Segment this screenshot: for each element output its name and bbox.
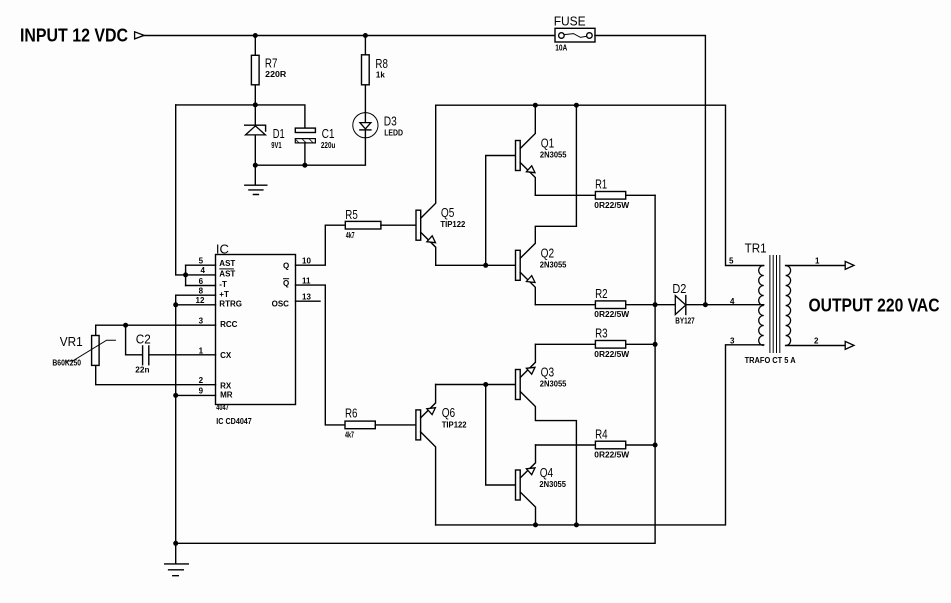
ground (upper, below D1): [245, 165, 267, 194]
svg-text:-T: -T: [219, 280, 227, 289]
transistor Q3 2N3055: [516, 344, 577, 525]
junction input-R8: [363, 33, 368, 38]
junction C1-gnd rail: [302, 163, 307, 168]
transistor Q5 TIP122: [416, 105, 466, 265]
svg-text:CX: CX: [220, 351, 232, 360]
svg-text:Q: Q: [283, 279, 289, 288]
svg-text:1: 1: [815, 256, 820, 265]
svg-text:Q6: Q6: [442, 405, 456, 420]
svg-text:TIP122: TIP122: [440, 220, 465, 229]
node INPUT 12 VDC label: [20, 26, 128, 46]
resistor R1: [535, 177, 655, 210]
resistor R6: [345, 406, 416, 440]
junction Q2 collector-rail: [574, 103, 579, 108]
svg-text:VR1: VR1: [60, 334, 83, 349]
svg-text:+T: +T: [219, 290, 229, 299]
svg-text:Q2: Q2: [541, 245, 555, 260]
svg-text:Q: Q: [283, 261, 289, 270]
svg-text:2N3055: 2N3055: [540, 150, 567, 159]
LED D3: [353, 113, 403, 138]
wire fuse to transformer center-tap drop: [595, 36, 705, 305]
svg-text:1: 1: [199, 346, 204, 355]
svg-text:Q3: Q3: [541, 364, 555, 379]
wire Q1 base riser: [486, 156, 516, 266]
wire secondary pin 2 out: [786, 345, 846, 347]
output port arrow 2: [845, 341, 854, 349]
svg-text:R8: R8: [375, 56, 388, 71]
svg-text:FUSE: FUSE: [554, 13, 586, 28]
svg-text:R3: R3: [595, 326, 608, 341]
svg-text:0R22/5W: 0R22/5W: [594, 451, 629, 460]
junction pin4 bracket: [183, 272, 188, 277]
svg-text:0R22/5W: 0R22/5W: [594, 310, 629, 319]
svg-text:3: 3: [730, 337, 735, 346]
svg-text:13: 13: [302, 293, 311, 302]
transistor Q2 2N3055: [516, 105, 577, 305]
svg-text:RX: RX: [220, 381, 232, 390]
junction input-R7: [253, 33, 258, 38]
junction R4 node: [653, 443, 658, 448]
diode D2 BY127: [655, 281, 764, 325]
resistor R5: [345, 207, 416, 240]
junction pin3-C2 branch: [123, 323, 128, 328]
svg-text:B60K250: B60K250: [52, 358, 81, 367]
junction Q1 collector-rail: [533, 103, 538, 108]
svg-text:R7: R7: [265, 55, 278, 70]
wire bottom collector rail to transformer pin 3: [436, 345, 764, 525]
svg-text:6: 6: [199, 277, 204, 286]
svg-text:C2: C2: [136, 331, 151, 346]
resistor R3: [535, 326, 655, 359]
transformer TR1 core: [770, 255, 780, 353]
wire IC pin 3 to VR1 top: [96, 325, 216, 335]
svg-text:BY127: BY127: [675, 317, 695, 326]
output port arrow 1: [845, 261, 854, 269]
junction Q3 collector-rail: [574, 522, 579, 527]
pin number 5 (TR1): [729, 256, 734, 265]
resistor R2: [535, 286, 655, 319]
transistor Q4 2N3055: [516, 445, 567, 525]
transformer TR1 secondary winding: [786, 266, 791, 346]
svg-text:22n: 22n: [135, 365, 149, 374]
svg-text:1k: 1k: [376, 70, 385, 79]
transformer TR1 primary winding: [759, 266, 764, 346]
svg-text:LEDD: LEDD: [384, 129, 403, 138]
junction R3 node: [653, 342, 658, 347]
ground (bottom left): [165, 543, 189, 575]
wire IC pin 6 stub: [186, 285, 216, 287]
svg-text:IC CD4047: IC CD4047: [216, 417, 252, 426]
svg-text:3: 3: [199, 317, 204, 326]
wire Q5 emitter to Q1/Q2 bases: [436, 264, 516, 266]
junction D2-fuse drop: [703, 302, 708, 307]
svg-text:5: 5: [199, 257, 204, 266]
svg-text:220u: 220u: [321, 141, 336, 150]
wire Q4 base riser: [486, 385, 516, 486]
svg-text:R1: R1: [595, 177, 607, 192]
wire pin5-pin6 bracket: [185, 265, 187, 285]
svg-text:12: 12: [196, 296, 205, 305]
wire emitter-resistor collector rail: [176, 195, 655, 543]
svg-text:4047: 4047: [216, 403, 229, 412]
capacitor C1: [295, 126, 335, 165]
svg-text:C1: C1: [322, 126, 335, 141]
svg-text:MR: MR: [220, 391, 233, 400]
svg-text:2N3055: 2N3055: [539, 480, 566, 489]
transistor Q6 TIP122: [416, 385, 467, 525]
wire IC pin 5 stub: [186, 264, 216, 266]
trimmer VR1: [52, 334, 116, 367]
svg-text:4: 4: [201, 266, 206, 275]
junction bus-bottom rail: [173, 541, 178, 546]
wire IC pin 10 to R5: [296, 225, 346, 265]
wire IC pin 9 stub: [176, 394, 216, 396]
pin number 1 (TR1): [815, 256, 820, 265]
svg-text:D1: D1: [273, 126, 285, 141]
wire top collector rail to transformer pin 5: [436, 105, 764, 265]
pin number 4 (TR1): [730, 297, 735, 306]
svg-text:D3: D3: [384, 113, 397, 128]
svg-text:0R22/5W: 0R22/5W: [594, 201, 629, 210]
junction pin12-bus: [173, 302, 178, 307]
svg-text:9: 9: [199, 387, 204, 396]
junction Q3 base node: [483, 382, 488, 387]
wire IC pin 11 to R6: [296, 285, 346, 425]
svg-text:Q4: Q4: [540, 465, 554, 480]
svg-text:5: 5: [729, 256, 734, 265]
svg-text:4: 4: [730, 297, 735, 306]
wire secondary pin 1 out: [786, 265, 846, 267]
wire IC pin 1 to C2 right plate: [149, 354, 215, 356]
svg-text:Q1: Q1: [541, 136, 555, 151]
svg-text:4k7: 4k7: [346, 231, 355, 240]
svg-text:R4: R4: [595, 426, 608, 441]
svg-text:INPUT 12 VDC: INPUT 12 VDC: [20, 26, 128, 46]
wire IC pin 8 stub + lower left bus: [176, 295, 216, 543]
svg-text:RTRG: RTRG: [219, 300, 242, 309]
input port arrow: [135, 32, 145, 39]
svg-text:R5: R5: [345, 207, 358, 222]
svg-text:2: 2: [199, 376, 204, 385]
svg-text:2N3055: 2N3055: [540, 380, 567, 389]
svg-text:RCC: RCC: [220, 320, 238, 329]
svg-text:10A: 10A: [555, 44, 567, 53]
svg-text:D2: D2: [672, 281, 686, 296]
junction Q4 collector-rail: [533, 522, 538, 527]
wire +12V input rail: [144, 35, 555, 37]
svg-text:10: 10: [302, 257, 311, 266]
svg-text:R6: R6: [345, 406, 358, 421]
junction R2/D2 node: [653, 302, 658, 307]
junction Q2 base node: [483, 263, 488, 268]
node OUTPUT 220 VAC label: [809, 296, 940, 316]
junction R7-D1 node: [253, 102, 258, 107]
svg-text:2N3055: 2N3055: [540, 260, 567, 269]
zener diode D1: [245, 105, 285, 165]
svg-text:11: 11: [302, 276, 311, 285]
svg-text:OSC: OSC: [272, 300, 290, 309]
capacitor C2: [135, 331, 151, 374]
pin number 2 (TR1): [814, 336, 819, 345]
junction pin9-bus: [173, 393, 178, 398]
op IC CD4047 body: [216, 241, 296, 425]
resistor R7: [251, 36, 286, 105]
svg-text:TRAFO CT 5 A: TRAFO CT 5 A: [745, 356, 796, 365]
junction D1-gnd rail: [253, 163, 258, 168]
wire D3 cathode down to small ground rail: [255, 138, 365, 165]
svg-text:Q5: Q5: [441, 205, 455, 220]
resistor R8: [362, 36, 388, 113]
svg-text:OUTPUT 220 VAC: OUTPUT 220 VAC: [809, 296, 940, 316]
transformer TR1 labels: [745, 240, 796, 365]
wire upper left bus to IC pin 4: [176, 105, 216, 275]
wire VDD rail (zener node): [176, 105, 305, 128]
transistor Q1 2N3055: [516, 105, 568, 195]
svg-text:AST: AST: [219, 259, 235, 268]
wire IC pin 2 to VR1 bottom: [96, 365, 216, 384]
svg-text:IC: IC: [216, 241, 229, 256]
resistor R4: [536, 426, 656, 459]
IC pin labels inside: [219, 259, 289, 400]
svg-text:9V1: 9V1: [271, 141, 282, 150]
svg-text:AST: AST: [219, 269, 235, 278]
wire IC pin 12 stub: [176, 304, 216, 306]
svg-text:8: 8: [199, 287, 204, 296]
svg-text:0R22/5W: 0R22/5W: [594, 350, 629, 359]
svg-text:TR1: TR1: [745, 240, 767, 255]
wire C2 left branch: [126, 325, 143, 355]
svg-text:4k7: 4k7: [345, 430, 354, 439]
wire IC pin 13 stub (OSC open): [296, 300, 321, 302]
pin number 3 (TR1): [730, 337, 735, 346]
svg-text:220R: 220R: [265, 70, 286, 79]
wire Q6 emitter to Q3/Q4 bases: [436, 384, 516, 386]
svg-text:R2: R2: [595, 286, 608, 301]
svg-text:2: 2: [814, 336, 819, 345]
IC pin numbers: [196, 257, 312, 396]
svg-text:TIP122: TIP122: [442, 421, 467, 430]
fuse FUSE: [554, 13, 595, 52]
